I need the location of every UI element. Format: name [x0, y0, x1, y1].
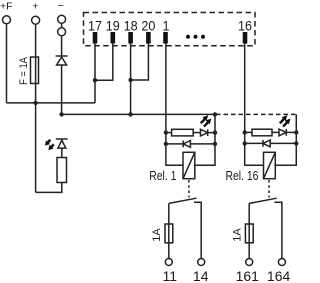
- svg-text:−: −: [58, 0, 64, 12]
- svg-text:1A: 1A: [151, 228, 163, 242]
- terminal circle 161: [246, 259, 253, 266]
- relay coil 1: [183, 152, 195, 178]
- switch relay 1 right contact: [194, 202, 201, 258]
- dashed terminal box: [84, 13, 256, 46]
- switch relay 16 left leg: [248, 203, 250, 258]
- LED relay 1 cathode bar: [207, 129, 209, 136]
- switch relay 1 left leg: [168, 203, 170, 258]
- svg-text:F = 1A: F = 1A: [18, 57, 30, 85]
- wire - link between circles: [61, 23, 63, 28]
- resistor relay 1: [172, 129, 194, 136]
- wire LED to resistor: [61, 148, 63, 157]
- power LED arrows: [46, 140, 54, 150]
- wire + from circle through fuse down to LED branch: [35, 24, 37, 192]
- wire diode16 to right: [270, 142, 296, 144]
- rail A positive rail: [7, 102, 96, 104]
- rail B negative rail solid part: [62, 113, 216, 115]
- relay 16 row1 wire: [245, 131, 252, 133]
- wire LED to right vertical: [208, 132, 215, 134]
- terminal circle 14: [198, 259, 205, 266]
- switch relay 16 right contact: [274, 202, 282, 258]
- wire 19 down and left to 17: [95, 44, 113, 81]
- terminal pad 1: [163, 32, 168, 44]
- wire 17 down to rail A: [94, 44, 96, 103]
- wire diode to right: [190, 143, 215, 145]
- wire +F down to rail A: [6, 24, 8, 103]
- freewheel diode relay 16 bar: [262, 140, 264, 147]
- switch relay 16 blade: [249, 198, 277, 203]
- wire - from diode to rail B: [61, 65, 63, 114]
- junction dot 18/20: [128, 78, 132, 82]
- junction dot 18/20 rail B: [128, 112, 132, 116]
- svg-text:18: 18: [124, 18, 138, 34]
- fuse relay 16: [245, 224, 253, 243]
- resistor power branch: [57, 158, 67, 183]
- svg-text:14: 14: [193, 268, 209, 283]
- diode D1 triangle: [57, 57, 67, 65]
- LED relay 16 arrows: [280, 116, 287, 123]
- svg-text:1: 1: [162, 18, 169, 34]
- diode D1 reverse protection cathode bar: [56, 55, 68, 57]
- terminal pad 18: [128, 32, 133, 44]
- relay 1 left vertical from pad 1: [166, 133, 183, 166]
- svg-text:Rel. 1: Rel. 1: [149, 169, 176, 183]
- ellipsis dots: [186, 35, 190, 39]
- junction dots relay1 row1: [164, 130, 168, 134]
- junction dot 17/19: [93, 78, 97, 82]
- junction dot rail A / + wire: [33, 101, 37, 105]
- wire LED16 to right vertical: [286, 131, 296, 133]
- wire - from circle to diode: [61, 36, 63, 56]
- freewheel diode relay 1 triangle: [183, 141, 190, 148]
- svg-text:1A: 1A: [231, 228, 243, 242]
- relay 16 right vertical: [274, 114, 296, 165]
- svg-text:19: 19: [106, 18, 120, 34]
- svg-text:16: 16: [238, 18, 252, 34]
- relay coil 1 diagonal: [183, 152, 195, 178]
- terminal pad 17: [93, 32, 98, 44]
- wire 20 down and left to 18: [131, 44, 149, 81]
- svg-text:+F: +F: [0, 1, 13, 13]
- relay 1 right vertical: [195, 114, 215, 165]
- wire resistor to LED 16: [272, 131, 279, 133]
- junction dot relay1 right on rail B: [213, 112, 217, 116]
- relay 16 row2 wire: [245, 142, 263, 144]
- LED relay 16 triangle: [279, 129, 286, 136]
- LED relay 16 cathode bar: [285, 129, 287, 136]
- relay coil 16 diagonal: [264, 152, 276, 178]
- LED relay 1 arrows: [201, 116, 208, 123]
- terminal pad 20: [146, 32, 151, 44]
- wire resistor to LED: [193, 132, 200, 134]
- LED relay 1 triangle: [201, 129, 208, 136]
- linkage dashes relay 1: [188, 180, 190, 198]
- terminal pad 16: [243, 32, 248, 44]
- relay 1 row2 wire: [166, 143, 183, 145]
- linkage dashes relay 16: [268, 180, 270, 198]
- junction dots relay16 row2: [243, 141, 247, 145]
- svg-text:20: 20: [141, 18, 155, 34]
- svg-text:+: +: [32, 1, 38, 13]
- terminal + circle: [32, 16, 40, 24]
- svg-text:164: 164: [267, 268, 291, 283]
- junction dot rail B / - wire: [59, 112, 63, 116]
- resistor relay 16: [252, 129, 272, 136]
- rail B dashed continuation: [216, 113, 296, 115]
- terminal circle 164: [278, 259, 285, 266]
- switch relay 1 blade: [169, 198, 197, 203]
- wire 1 down crossing rail B to relay 1: [165, 44, 167, 133]
- fuse relay 1: [165, 224, 173, 243]
- wire resistor bottom to + branch: [36, 183, 62, 193]
- svg-text:161: 161: [236, 268, 260, 283]
- terminal pad 19: [111, 32, 116, 44]
- power LED triangle: [58, 140, 66, 148]
- freewheel diode relay 16 triangle: [263, 140, 270, 147]
- terminal +F circle: [3, 16, 11, 24]
- relay coil 16: [264, 152, 276, 178]
- power LED cathode bar: [56, 138, 68, 140]
- terminal - circle lower: [58, 28, 66, 36]
- svg-text:Rel. 16: Rel. 16: [225, 169, 258, 183]
- svg-text:17: 17: [88, 18, 102, 34]
- terminal circle 11: [165, 259, 172, 266]
- relay 16 left vertical from pad 16: [245, 132, 264, 165]
- junction dots relay16 row1: [243, 130, 247, 134]
- freewheel diode relay 1 bar: [182, 141, 184, 148]
- svg-text:11: 11: [163, 268, 178, 283]
- terminal - circle upper: [58, 15, 66, 23]
- wire 18 down to rail B: [130, 44, 132, 115]
- wire 16 down crossing rail B to relay 16: [244, 44, 246, 133]
- relay 1 row1 wire: [166, 132, 172, 134]
- fuse F=1A body: [31, 57, 39, 84]
- junction dots relay1 row2: [164, 142, 168, 146]
